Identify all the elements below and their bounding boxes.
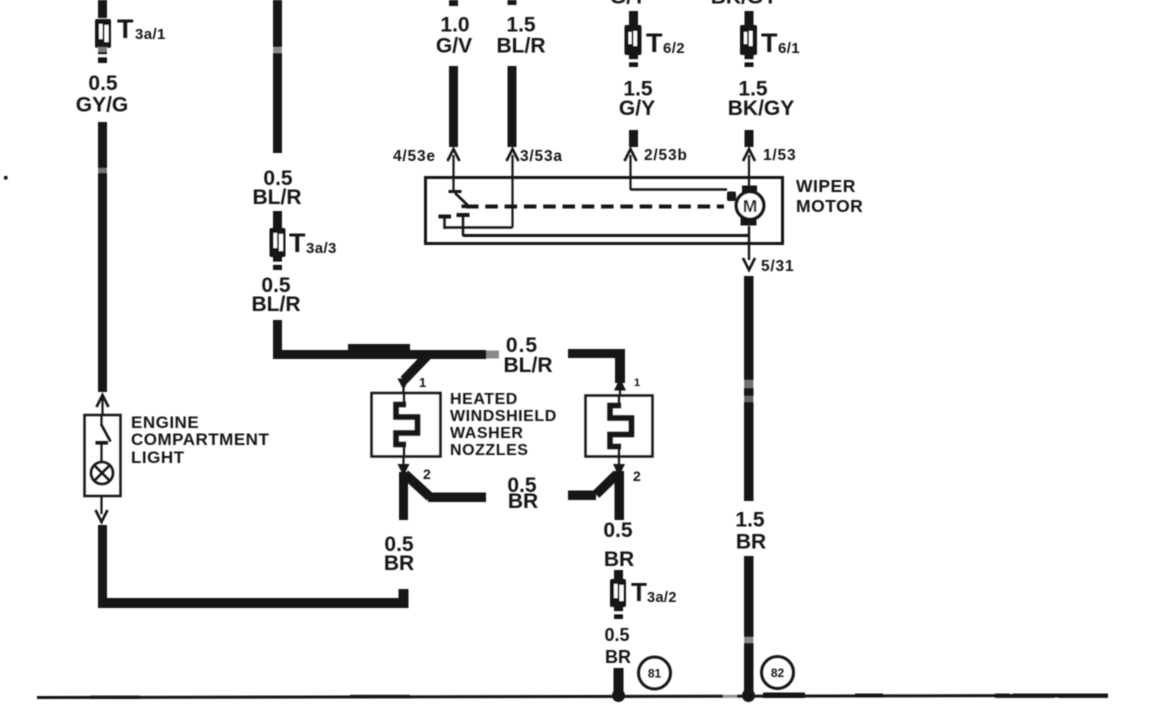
svg-text:2: 2 — [633, 468, 641, 484]
svg-text:BK/GY: BK/GY — [711, 0, 778, 9]
svg-text:1.5: 1.5 — [735, 509, 765, 532]
svg-text:T: T — [117, 14, 134, 44]
svg-text:WIPER: WIPER — [796, 176, 856, 196]
svg-text:3a/1: 3a/1 — [135, 26, 166, 43]
svg-text:82: 82 — [771, 666, 785, 680]
svg-text:1.5: 1.5 — [506, 14, 536, 37]
svg-text:1: 1 — [634, 377, 640, 389]
svg-text:HEATED: HEATED — [450, 391, 518, 408]
svg-text:0.5: 0.5 — [604, 625, 629, 645]
svg-text:1.0: 1.0 — [440, 14, 469, 37]
svg-text:3a/3: 3a/3 — [306, 240, 337, 257]
svg-text:0.5: 0.5 — [88, 72, 118, 95]
svg-text:LIGHT: LIGHT — [131, 448, 185, 467]
svg-text:WASHER: WASHER — [450, 425, 524, 442]
svg-text:G/Y: G/Y — [610, 0, 646, 9]
svg-text:NOZZLES: NOZZLES — [450, 442, 529, 459]
svg-text:BL/R: BL/R — [252, 293, 301, 316]
svg-text:T: T — [761, 28, 778, 58]
svg-text:BL/R: BL/R — [253, 186, 302, 209]
svg-text:BL/R: BL/R — [504, 354, 553, 377]
svg-text:1/53: 1/53 — [763, 147, 796, 164]
svg-text:BR: BR — [384, 552, 414, 575]
svg-text:T: T — [631, 577, 647, 607]
svg-text:WINDSHIELD: WINDSHIELD — [450, 408, 557, 425]
svg-text:6/2: 6/2 — [663, 40, 685, 57]
svg-text:5/31: 5/31 — [761, 258, 794, 275]
svg-text:G/Y: G/Y — [619, 97, 655, 120]
svg-text:1: 1 — [419, 375, 426, 390]
svg-text:6/1: 6/1 — [778, 40, 800, 57]
svg-text:BK/GY: BK/GY — [728, 97, 795, 120]
svg-text:GY/G: GY/G — [76, 94, 129, 117]
svg-text:BR: BR — [736, 531, 766, 554]
svg-text:3/53a: 3/53a — [520, 148, 563, 165]
svg-text:MOTOR: MOTOR — [796, 196, 863, 216]
svg-text:BR: BR — [605, 647, 631, 667]
svg-text:3a/2: 3a/2 — [647, 590, 677, 606]
svg-text:M: M — [743, 196, 758, 216]
svg-text:BL/R: BL/R — [497, 35, 546, 58]
svg-text:T: T — [646, 28, 663, 58]
svg-text:4/53e: 4/53e — [393, 148, 436, 165]
svg-text:G/V: G/V — [436, 35, 472, 58]
svg-text:T: T — [289, 228, 306, 258]
svg-text:BR: BR — [604, 548, 634, 571]
svg-text:0.5: 0.5 — [603, 519, 633, 542]
svg-text:2: 2 — [423, 466, 431, 482]
svg-text:COMPARTMENT: COMPARTMENT — [131, 430, 269, 449]
svg-text:BR: BR — [508, 490, 538, 513]
svg-text:2/53b: 2/53b — [644, 147, 688, 164]
svg-text:81: 81 — [648, 667, 662, 681]
